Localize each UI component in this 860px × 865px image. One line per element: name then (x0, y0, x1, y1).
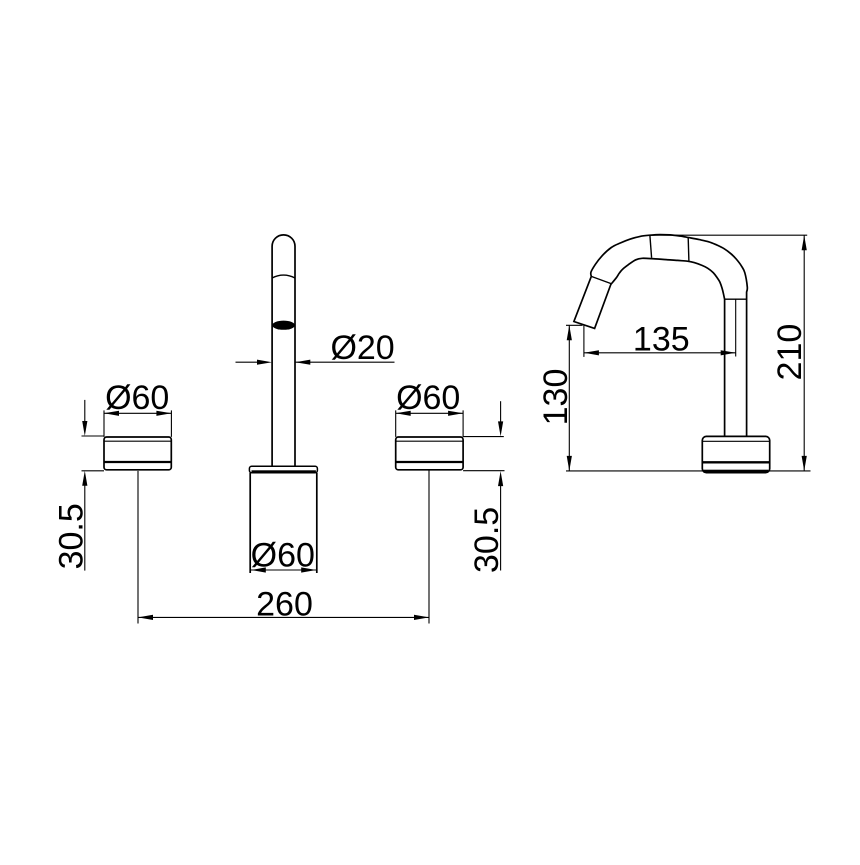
arrow 210 bottom (802, 456, 807, 471)
right handle top joint line (396, 440, 463, 442)
baseline ground line (566, 470, 811, 472)
svg-text:130: 130 (537, 369, 575, 426)
dim O20 left line (236, 361, 260, 363)
dim O60 left handle line (104, 412, 171, 414)
svg-text:210: 210 (771, 324, 809, 381)
right handle lower thick line (396, 461, 463, 463)
dim 135 tip ext horizontal (566, 324, 583, 326)
dim 210 top ext (648, 234, 807, 236)
dim 30.5 left ext bottom (82, 470, 105, 472)
spout outlet joint tick (591, 276, 611, 283)
svg-text:260: 260 (256, 585, 313, 623)
spout flange plate (249, 466, 317, 472)
arrow 30.5 right down (498, 421, 503, 436)
svg-text:Ø60: Ø60 (251, 537, 315, 575)
arrow O60 left handle left (104, 411, 119, 416)
dim 130 line (568, 325, 570, 471)
dim 30.5 right ext top (463, 436, 504, 438)
arrow 260 left (138, 615, 153, 620)
left handle lower thick line (104, 461, 171, 463)
dim O20 right line (295, 361, 394, 363)
spout tube front view (272, 235, 295, 467)
dim O60 shank line (251, 569, 316, 571)
arrow O60 left handle right (156, 411, 171, 416)
dim 30.5 left ext top (82, 435, 105, 437)
arrow O20 right (295, 360, 310, 365)
arrow O60 right handle right (448, 411, 463, 416)
left handle body (104, 437, 171, 470)
svg-text:Ø60: Ø60 (105, 379, 169, 417)
spout column joint line (725, 298, 747, 300)
base top joint line (702, 440, 769, 442)
svg-text:30.5: 30.5 (468, 507, 506, 573)
dim 135 center ext in tube (735, 299, 737, 356)
dim 260 ext left (137, 471, 139, 624)
dim 30.5 left upper leader (84, 400, 86, 422)
svg-text:30.5: 30.5 (53, 503, 91, 569)
left handle top joint line (104, 440, 171, 442)
dim 135 left ext (583, 326, 585, 357)
svg-text:Ø20: Ø20 (330, 329, 394, 367)
spout shank side lines (250, 473, 317, 573)
dim 30.5 right ext bottom (463, 470, 504, 472)
base dark band (703, 470, 768, 473)
side view base body (702, 436, 769, 472)
spout top tick left (650, 235, 652, 257)
spout top tick right (687, 238, 690, 261)
arrow 30.5 left up (82, 471, 87, 486)
spout cap joint arc (272, 275, 295, 278)
dim 30.5 right upper leader (500, 401, 502, 422)
dim O60 right ext lines (396, 410, 463, 437)
arrow 260 right (414, 615, 429, 620)
arrow 130 bottom (567, 456, 572, 471)
arrow 210 top (802, 235, 807, 250)
dim O60 right handle line (396, 412, 463, 414)
dim 30.5 left lower leader (84, 485, 86, 571)
arrow 135 left (584, 350, 599, 355)
side view spout outline (574, 235, 747, 437)
arrow 30.5 left down (82, 421, 87, 436)
dim 260 line (138, 616, 429, 618)
arrow O20 left (257, 360, 272, 365)
arrow O60 shank right (301, 567, 316, 572)
svg-text:Ø60: Ø60 (396, 379, 460, 417)
dim O60 left ext lines (104, 410, 171, 437)
arrow O60 right handle left (396, 411, 411, 416)
right handle body (396, 437, 463, 470)
flange dark band (252, 470, 316, 472)
arrow O60 shank left (251, 567, 266, 572)
dim 135 line (584, 352, 736, 354)
arrow 30.5 right up (498, 471, 503, 486)
svg-text:135: 135 (633, 321, 690, 359)
base lower thick line (702, 461, 769, 463)
aerator outlet ellipse (272, 321, 295, 330)
dim 210 line (803, 235, 805, 471)
arrow 130 top (567, 325, 572, 340)
dim 260 ext right (428, 470, 430, 624)
arrow 135 right (721, 350, 736, 355)
dim 30.5 right lower leader (500, 486, 502, 571)
